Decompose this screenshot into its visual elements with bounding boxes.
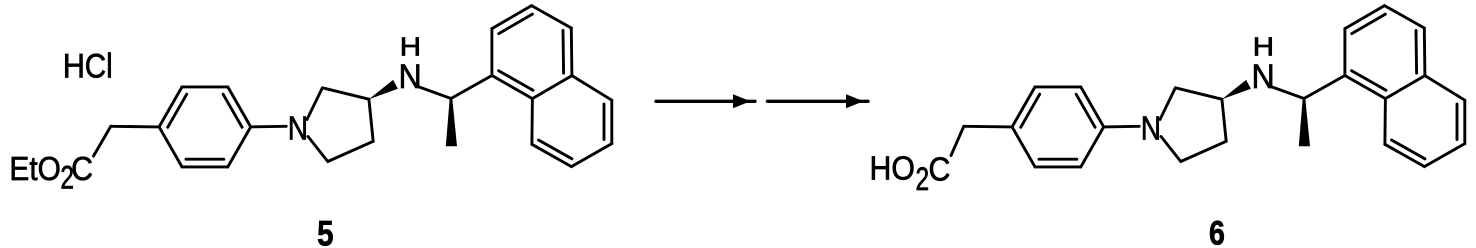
svg-text:N: N <box>399 58 422 96</box>
svg-text:N: N <box>1252 58 1275 96</box>
svg-text:N: N <box>288 110 308 147</box>
svg-text:H: H <box>63 47 85 85</box>
svg-text:N: N <box>1141 110 1161 147</box>
svg-text:5: 5 <box>317 215 333 248</box>
svg-text:HO: HO <box>870 149 915 186</box>
svg-text:C: C <box>928 150 950 187</box>
svg-text:6: 6 <box>1209 215 1225 248</box>
svg-text:C: C <box>71 150 93 187</box>
svg-text:2: 2 <box>916 161 930 197</box>
svg-text:H: H <box>1253 31 1274 61</box>
svg-text:EtO: EtO <box>9 150 60 187</box>
svg-text:H: H <box>400 31 421 61</box>
svg-text:Cl: Cl <box>85 47 113 85</box>
